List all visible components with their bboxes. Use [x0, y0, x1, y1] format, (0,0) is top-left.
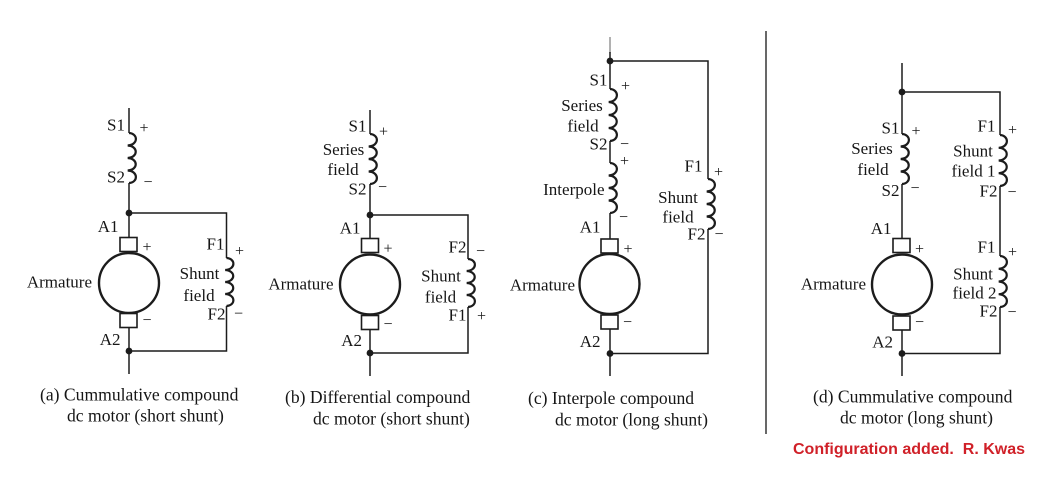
svg-text:A1: A1: [340, 219, 361, 238]
svg-text:A2: A2: [100, 330, 121, 349]
svg-text:Series: Series: [851, 139, 893, 158]
inductor F1-F2 shunt field (a): [225, 258, 233, 306]
wire: (c) S2 to interpole: [609, 141, 611, 163]
svg-text:(c) Interpole compound: (c) Interpole compound: [528, 388, 694, 408]
svg-text:F1: F1: [207, 235, 225, 254]
svg-text:+: +: [621, 78, 630, 95]
brush (bottom) of armature (a): [120, 314, 137, 328]
brush (top) of armature (c): [601, 239, 618, 253]
svg-text:S1: S1: [349, 117, 367, 136]
svg-text:−: −: [234, 306, 243, 323]
svg-text:+: +: [384, 241, 393, 258]
brush (bottom) of armature (d): [893, 316, 910, 330]
wire: (b) bottom lead: [369, 330, 371, 377]
inductor S1-S2 series field (b): [369, 134, 377, 184]
svg-text:field: field: [567, 117, 599, 136]
svg-text:S1: S1: [107, 116, 125, 135]
svg-text:S2: S2: [107, 168, 125, 187]
svg-text:F2: F2: [449, 238, 467, 257]
svg-text:−: −: [620, 136, 629, 153]
svg-text:(d) Cummulative compound: (d) Cummulative compound: [813, 387, 1013, 407]
node: (c) junction of shunt branch at top: [607, 58, 614, 65]
svg-text:−: −: [915, 314, 924, 331]
brush (bottom) of armature (c): [601, 315, 618, 329]
svg-text:−: −: [476, 243, 485, 260]
brush (top) of armature (a): [120, 238, 137, 252]
brush (top) of armature (b): [362, 239, 379, 253]
svg-text:A2: A2: [872, 333, 893, 352]
svg-text:F1: F1: [978, 117, 996, 136]
svg-text:Shunt: Shunt: [421, 267, 461, 286]
node: (d) junction of shunt branch at top: [899, 89, 906, 96]
wire: (c) long-shunt branch loop: [610, 61, 708, 354]
svg-text:field 2: field 2: [953, 284, 997, 303]
svg-text:Shunt: Shunt: [180, 264, 220, 283]
svg-text:+: +: [235, 243, 244, 260]
armature M3 (c): [580, 254, 640, 314]
svg-text:S1: S1: [882, 119, 900, 138]
svg-text:dc motor (short shunt): dc motor (short shunt): [313, 409, 470, 429]
svg-text:−: −: [715, 226, 724, 243]
inductor S1-S2 series field (d): [901, 134, 909, 184]
svg-text:Interpole: Interpole: [543, 180, 604, 199]
svg-text:+: +: [1008, 122, 1017, 139]
node: (a) junction of shunt branch at top: [126, 210, 133, 217]
svg-text:F1: F1: [978, 238, 996, 257]
svg-text:F1: F1: [449, 306, 467, 325]
node: (b) junction of shunt branch at top: [367, 212, 374, 219]
wire: (c) bottom lead: [609, 329, 611, 376]
wire: (c) top lead: [609, 37, 611, 53]
svg-text:+: +: [1008, 244, 1017, 261]
svg-text:field: field: [857, 160, 889, 179]
wire: (d) S2 to node A1: [901, 184, 903, 238]
svg-text:+: +: [915, 241, 924, 258]
node: (d) junction of shunt branch at bottom: [899, 350, 906, 357]
brush (bottom) of armature (b): [362, 316, 379, 330]
svg-text:Armature: Armature: [27, 273, 92, 292]
svg-text:+: +: [140, 120, 149, 137]
svg-text:field: field: [183, 286, 215, 305]
wire: (c) interpole to node A1: [609, 213, 611, 239]
armature M2 (b): [340, 255, 400, 315]
svg-text:−: −: [623, 314, 632, 331]
svg-text:F2: F2: [688, 225, 706, 244]
wire: (d) bottom lead: [901, 330, 903, 376]
svg-text:field 1: field 1: [952, 162, 996, 181]
armature M1 (a): [99, 253, 159, 313]
wire: (b) shunt branch loop: [370, 215, 468, 353]
inductor F2-F1 shunt field (b): [467, 259, 475, 307]
wire: (a) top lead: [128, 108, 130, 133]
svg-text:Shunt: Shunt: [953, 265, 993, 284]
svg-text:−: −: [619, 209, 628, 226]
wire: (b) S2 to node A1: [369, 184, 371, 238]
svg-text:Configuration added. R. Kwas: Configuration added. R. Kwas: [793, 441, 1025, 458]
svg-text:+: +: [714, 164, 723, 181]
wire: (a) shunt branch loop: [129, 213, 227, 351]
wire: (b) top lead: [369, 110, 371, 134]
svg-text:+: +: [379, 124, 388, 141]
svg-text:−: −: [378, 179, 387, 196]
svg-text:−: −: [384, 316, 393, 333]
svg-text:F2: F2: [980, 302, 998, 321]
wire: (a) S2 to node A1: [128, 183, 130, 237]
svg-text:+: +: [143, 239, 152, 256]
svg-text:(a) Cummulative compound: (a) Cummulative compound: [40, 385, 239, 405]
svg-text:−: −: [143, 312, 152, 329]
inductor S1-S2 series field (a): [128, 133, 136, 183]
svg-text:F1: F1: [685, 157, 703, 176]
svg-text:Armature: Armature: [801, 275, 866, 294]
svg-text:+: +: [912, 123, 921, 140]
svg-text:−: −: [1008, 184, 1017, 201]
svg-text:F2: F2: [208, 305, 226, 324]
separator line between (c) and (d): [765, 31, 767, 434]
svg-text:F2: F2: [980, 182, 998, 201]
armature M4 (d): [872, 255, 932, 315]
svg-text:+: +: [624, 241, 633, 258]
svg-text:field: field: [425, 288, 457, 307]
svg-text:+: +: [477, 308, 486, 325]
svg-text:Armature: Armature: [510, 276, 575, 295]
svg-text:−: −: [144, 174, 153, 191]
node: (b) junction of shunt branch at bottom: [367, 350, 374, 357]
inductor F1-F2 shunt field 2 (d): [999, 256, 1007, 307]
svg-text:dc motor (long shunt): dc motor (long shunt): [555, 410, 708, 430]
svg-text:A2: A2: [580, 332, 601, 351]
svg-text:Series: Series: [561, 96, 603, 115]
svg-text:Series: Series: [323, 140, 365, 159]
svg-text:dc motor (short shunt): dc motor (short shunt): [67, 406, 224, 426]
svg-text:−: −: [911, 180, 920, 197]
inductor F1-F2 shunt field (c): [707, 179, 715, 229]
node: (c) junction of shunt branch at bottom: [607, 350, 614, 357]
svg-text:S2: S2: [349, 180, 367, 199]
inductor interpole winding (c): [609, 163, 617, 213]
inductor F1-F2 shunt field 1 (d): [999, 135, 1007, 186]
svg-text:S2: S2: [882, 181, 900, 200]
wire: (a) bottom lead: [128, 328, 130, 375]
brush (top) of armature (d): [893, 239, 910, 253]
node: (a) junction of shunt branch at bottom: [126, 348, 133, 355]
svg-text:S2: S2: [590, 135, 608, 154]
svg-text:−: −: [1008, 304, 1017, 321]
svg-text:A1: A1: [580, 218, 601, 237]
svg-text:dc motor (long shunt): dc motor (long shunt): [840, 408, 993, 428]
svg-text:Armature: Armature: [268, 275, 333, 294]
svg-text:Shunt: Shunt: [658, 188, 698, 207]
wire: (d) top lead: [901, 63, 903, 134]
svg-text:A2: A2: [341, 331, 362, 350]
inductor S1-S2 series field (c): [609, 89, 617, 141]
svg-text:+: +: [620, 153, 629, 170]
wire: (d) long-shunt branch loop: [902, 92, 1000, 354]
svg-text:A1: A1: [871, 219, 892, 238]
svg-text:Shunt: Shunt: [953, 142, 993, 161]
svg-text:S1: S1: [590, 71, 608, 90]
svg-text:A1: A1: [98, 217, 119, 236]
svg-text:(b) Differential compound: (b) Differential compound: [285, 387, 471, 407]
svg-text:field: field: [327, 160, 359, 179]
